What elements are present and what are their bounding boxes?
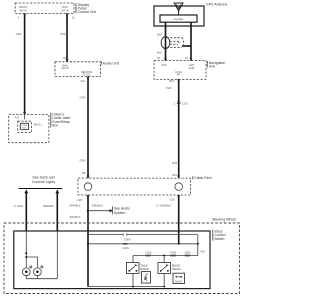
switch return wires	[88, 274, 165, 288]
label Driver's Under-dash Fuse/Relay Box	[51, 112, 71, 127]
svg-text:B8: B8	[82, 171, 86, 175]
wire amplifier right to navigation unit	[182, 22, 193, 61]
svg-text:LT GRN: LT GRN	[14, 204, 23, 208]
svg-text:220Ω: 220Ω	[123, 246, 129, 250]
svg-text:GRN/BLK: GRN/BLK	[92, 204, 104, 208]
svg-text:Audio Unit: Audio Unit	[103, 61, 119, 65]
svg-text:Switch: Switch	[214, 237, 224, 241]
svg-text:180Ω: 180Ω	[184, 250, 190, 254]
wire GRN display panel to fuse box	[16, 14, 26, 115]
wire GRN/BLK cable reel to voice control switch	[69, 195, 130, 287]
svg-text:47Ω: 47Ω	[200, 250, 205, 254]
wire BLK amplifier to navigation unit	[157, 22, 167, 61]
svg-text:Unit: Unit	[209, 65, 215, 69]
svg-text:RED/BLK: RED/BLK	[43, 204, 54, 208]
svg-text:P9: P9	[177, 73, 181, 77]
wire LT GRN/BLK cable reel to voice control switch	[156, 195, 180, 244]
bus A with inline capacitor	[88, 234, 123, 236]
svg-text:A6: A6	[63, 56, 67, 60]
svg-text:Amplifier: Amplifier	[173, 17, 183, 21]
label Cable Reel	[193, 176, 212, 180]
svg-text:C26: C26	[170, 198, 175, 202]
audio unit box	[55, 62, 101, 77]
lamp bottoms and return	[25, 276, 27, 279]
svg-text:Switch: Switch	[172, 267, 181, 271]
driver's under-dash fuse/relay box	[9, 115, 49, 143]
svg-text:Console Lights: Console Lights	[32, 180, 55, 184]
svg-text:Control Unit: Control Unit	[78, 10, 97, 14]
svg-text:PUR: PUR	[166, 86, 172, 90]
svg-text:GPS: GPS	[161, 63, 167, 67]
label Navigation Unit	[207, 61, 225, 69]
TALK icon box	[142, 272, 151, 284]
svg-text:BLK: BLK	[157, 32, 162, 36]
wire RED/BLK dash lights arrow	[43, 189, 59, 231]
svg-text:SW IN: SW IN	[61, 66, 69, 70]
svg-text:Steering Wheel: Steering Wheel	[212, 218, 236, 222]
svg-text:LT GRN/BLK: LT GRN/BLK	[156, 204, 171, 208]
coax connector	[161, 37, 184, 49]
svg-text:1.2kΩ: 1.2kΩ	[145, 250, 152, 254]
svg-text:GPS Antenna: GPS Antenna	[206, 2, 227, 6]
svg-text:P12: P12	[15, 116, 20, 120]
svg-text:IN SIG: IN SIG	[83, 73, 91, 77]
svg-text:B7: B7	[157, 56, 161, 60]
voice control switch box	[14, 231, 210, 289]
svg-text:BACK: BACK	[175, 280, 182, 283]
svg-text:System: System	[114, 211, 126, 215]
see dash and console lights rail	[19, 176, 63, 189]
inline connector C302	[177, 101, 181, 103]
GPS antenna outer box	[154, 6, 204, 26]
svg-text:GRN: GRN	[80, 95, 86, 99]
label Display Panel Control Unit	[76, 3, 96, 14]
antenna symbol	[174, 3, 183, 15]
svg-text:GRN/BLK: GRN/BLK	[69, 215, 81, 219]
svg-text:BLK: BLK	[157, 50, 162, 54]
talk switch drop	[132, 256, 134, 263]
resistor on bus B	[123, 243, 127, 245]
lamp 2	[34, 268, 42, 276]
switch resistor ladder	[87, 233, 205, 262]
TALK switch	[127, 263, 150, 274]
svg-text:1.5kW: 1.5kW	[123, 237, 131, 241]
svg-text:B10: B10	[172, 173, 177, 177]
lamp 1	[22, 268, 30, 276]
display panel control unit box	[15, 3, 74, 14]
svg-text:SW IN: SW IN	[61, 8, 69, 12]
bus B	[88, 243, 198, 245]
wire LT GRN dash lights arrow	[14, 189, 29, 231]
svg-text:C1B: C1B	[77, 198, 82, 202]
resistor R2 470	[170, 255, 176, 257]
row C	[133, 255, 198, 257]
svg-text:GRN/BLK: GRN/BLK	[69, 204, 81, 208]
svg-text:GND: GND	[189, 66, 195, 70]
BACK icon box	[173, 273, 185, 283]
cable reel box	[78, 178, 191, 195]
jog to lamp 2	[26, 257, 37, 268]
svg-text:A11: A11	[81, 79, 86, 83]
BACK switch	[158, 263, 181, 274]
svg-text:PNK: PNK	[60, 32, 66, 36]
wire PUR navigation unit to cable reel	[166, 79, 188, 178]
svg-text:470Ω: 470Ω	[170, 250, 176, 254]
svg-text:C302: C302	[182, 101, 189, 105]
svg-text:GRN: GRN	[80, 158, 86, 162]
MICU	[18, 121, 32, 132]
amplifier box	[160, 15, 197, 22]
branch arrow to see audio system	[87, 210, 89, 212]
illumination lamp circuit	[22, 231, 57, 279]
resistor R3 180	[185, 255, 190, 257]
navigation unit box	[154, 61, 206, 80]
label Voice Control Switch	[213, 229, 226, 241]
steering wheel dashed box	[4, 218, 240, 294]
svg-text:Switch: Switch	[140, 267, 149, 271]
wire GRN audio unit to cable reel	[80, 77, 90, 179]
label Audio Unit	[101, 61, 118, 65]
resistor R1 1.2k	[146, 255, 152, 257]
wire PNK display panel to audio unit	[60, 14, 75, 62]
svg-text:B16: B16	[169, 79, 174, 83]
svg-text:C2: C2	[185, 56, 189, 60]
svg-text:MICU: MICU	[34, 122, 42, 126]
svg-text:Box: Box	[52, 124, 58, 128]
svg-text:Cable Reel: Cable Reel	[194, 176, 212, 180]
svg-text:GRN: GRN	[16, 32, 22, 36]
right drop	[197, 235, 199, 256]
svg-text:SW IN: SW IN	[19, 8, 27, 12]
svg-text:PUR: PUR	[172, 161, 178, 165]
